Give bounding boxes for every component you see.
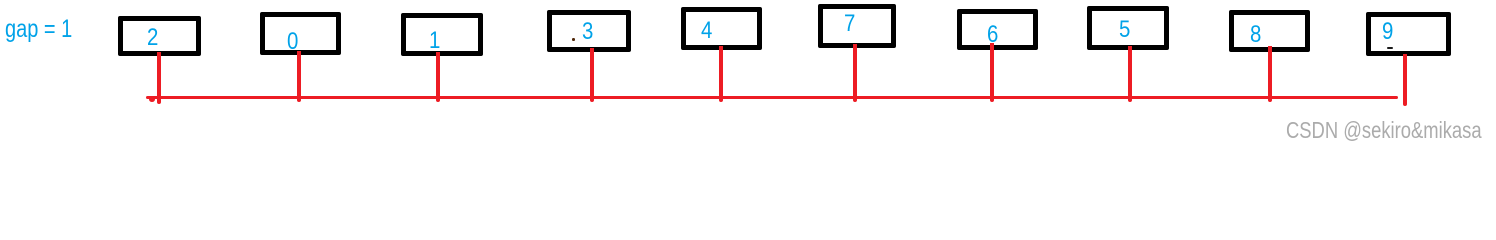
vertical red tick from box5 <box>853 44 857 102</box>
vertical red tick from box8 <box>1268 46 1272 103</box>
vertical red tick from box3 <box>590 48 594 102</box>
stray black dash in box index9 <box>1387 47 1393 49</box>
vertical red tick from box6 <box>990 43 994 102</box>
vertical red tick from box2 <box>436 52 440 102</box>
digit 1 <box>429 29 440 53</box>
vertical red tick from box7 <box>1128 46 1132 102</box>
array cell box index5 value 7 <box>818 4 896 48</box>
digit 5 <box>1119 18 1130 42</box>
digit 2 <box>147 26 158 50</box>
vertical red tick from box9 (extends below baseline) <box>1403 54 1407 106</box>
stray red dot in box index3 <box>572 38 575 41</box>
horizontal red baseline <box>146 96 1399 100</box>
array cell box index2 value 1 <box>401 13 483 56</box>
array cell box index4 value 4 <box>681 7 762 50</box>
array cell box index3 value 3 <box>547 10 632 53</box>
array cell box index8 value 8 <box>1229 10 1310 52</box>
array cell box index0 value 2 <box>118 16 201 57</box>
label gap = 1 <box>5 17 72 42</box>
watermark CSDN @sekiro&mikasa <box>1286 119 1482 142</box>
array cell box index9 value 9 <box>1366 12 1451 56</box>
array cell box index1 value 0 <box>260 12 342 55</box>
left end dot of baseline <box>149 96 156 102</box>
digit 8 <box>1250 23 1261 47</box>
digit 3 <box>582 20 593 44</box>
digit 7 <box>844 12 855 36</box>
digit 0 <box>287 30 298 54</box>
vertical red tick from box0 <box>157 52 161 104</box>
vertical red tick from box1 <box>297 51 301 103</box>
digit 4 <box>701 19 712 43</box>
digit 9 <box>1382 20 1393 44</box>
digit 6 <box>987 23 998 47</box>
array cell box index6 value 6 <box>957 9 1038 50</box>
vertical red tick from box4 <box>719 46 723 102</box>
array cell box index7 value 5 <box>1087 6 1169 50</box>
